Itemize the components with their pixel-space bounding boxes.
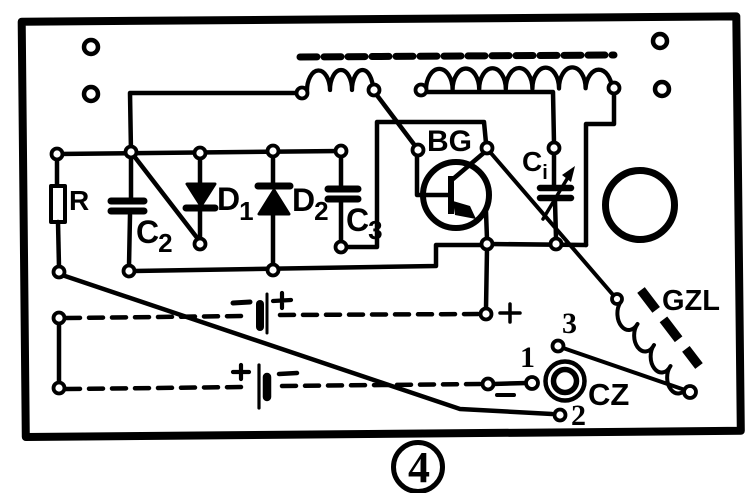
node battery B1 right (plus) — [481, 309, 492, 320]
battery B1 dashed wire left segment — [66, 316, 244, 318]
transistor BG base bar — [448, 176, 454, 214]
node BG collector — [482, 143, 493, 154]
wire left battery column — [57, 323, 62, 383]
node Ci bottom — [551, 239, 562, 250]
battery B2 long plate — [257, 365, 260, 408]
node BG base — [413, 145, 424, 156]
wire emitter rail — [490, 244, 586, 245]
ferrite core (dashed) — [300, 55, 614, 57]
node C3 bottom — [336, 242, 347, 253]
node C3 top — [336, 146, 347, 157]
node battery B2 right — [483, 379, 494, 390]
node C2 top — [126, 147, 137, 158]
svg-text:4: 4 — [408, 443, 430, 492]
minus label under terminal 1 wire — [497, 393, 514, 397]
node L1 left — [297, 88, 308, 99]
diode D1 — [186, 184, 215, 208]
wire Ci leads — [554, 154, 556, 238]
node D2 top — [268, 146, 279, 157]
node L2 right — [609, 83, 620, 94]
battery B1 minus label — [233, 302, 250, 303]
speaker mounting circle — [606, 171, 675, 240]
battery B2 dashed wire right segment — [282, 384, 482, 386]
plus label at battery node — [500, 304, 520, 322]
figure number circle — [394, 443, 443, 492]
node battery B1 left — [54, 313, 65, 324]
trimmer capacitor Ci — [540, 188, 571, 198]
wire L2 right end down-left-down to emitter rail — [586, 93, 614, 245]
transistor BG emitter stroke with arrow — [453, 201, 487, 239]
jack CZ outer ring — [546, 362, 585, 401]
battery B1 plus label — [273, 293, 291, 308]
battery B2 short plate — [263, 377, 272, 397]
svg-text:3: 3 — [562, 307, 577, 340]
wire D2 leads — [271, 157, 276, 264]
node BG emitter — [482, 239, 493, 250]
capacitor C2 — [111, 201, 144, 211]
wire R bottom lead — [58, 222, 59, 267]
svg-text:BG: BG — [427, 125, 472, 158]
node L2 left — [416, 85, 427, 96]
battery B2 dashed wire left segment — [66, 387, 244, 389]
capacitor C3 — [328, 189, 358, 199]
svg-text:D1: D1 — [217, 181, 254, 226]
wire C2-top up and across to coil L1 — [130, 93, 302, 152]
wire C3 leads — [339, 157, 344, 242]
inductor GZL coil — [617, 303, 687, 393]
node C2 bottom — [124, 266, 135, 277]
transistor BG collector stroke — [453, 151, 486, 179]
GZL ferrite rod (dashed bar) — [641, 290, 699, 366]
svg-text:2: 2 — [571, 399, 586, 432]
node R bottom — [54, 267, 65, 278]
svg-text:R: R — [69, 185, 89, 216]
node GZL top — [612, 294, 622, 304]
battery B2 plus label — [233, 365, 249, 379]
mounting hole top-left 2 — [84, 87, 98, 101]
wire C3 bottom to collector node — [346, 122, 486, 247]
battery B1 long plate — [266, 294, 269, 333]
wire top rail (R top to C3 top) — [57, 151, 341, 154]
node jack terminal 1 — [526, 377, 538, 389]
svg-text:C2: C2 — [136, 214, 173, 258]
node D1 top — [195, 148, 206, 159]
inductor L1 — [307, 70, 373, 91]
node D2 bottom — [268, 265, 279, 276]
svg-text:GZL: GZL — [662, 285, 720, 317]
wire C2 leads — [129, 157, 131, 266]
svg-text:D2: D2 — [292, 182, 329, 226]
transistor BG base lead — [417, 155, 448, 195]
node L1 right — [369, 85, 380, 96]
wire D1 leads — [198, 159, 203, 239]
mounting hole top-right 1 — [653, 34, 667, 48]
battery B2 minus label — [279, 373, 297, 374]
mounting hole top-left 1 — [84, 40, 98, 54]
wire battery B2 node to terminal 1 — [493, 383, 527, 384]
node Ci top — [549, 143, 560, 154]
node jack terminal 3 — [553, 341, 564, 352]
svg-text:CZ: CZ — [588, 377, 629, 412]
jack CZ inner ring — [554, 370, 577, 393]
transistor BG circle — [423, 162, 489, 228]
inductor L2 — [426, 67, 612, 90]
svg-text:Ci: Ci — [522, 146, 548, 184]
wire long diagonal from R bottom node to jack terminal 2 — [62, 275, 552, 414]
mounting hole top-right 2 — [655, 82, 669, 96]
diode D2 — [258, 186, 290, 214]
node D1 bottom — [195, 239, 206, 250]
wire C2 top node to D1 bottom node (diagonal) — [134, 156, 198, 239]
wire terminal 3 to GZL bottom node (diagonal) — [563, 348, 685, 390]
node R top — [52, 149, 63, 160]
battery B1 short plate — [256, 304, 264, 327]
wire R top lead — [55, 159, 60, 187]
battery B1 dashed wire right segment — [280, 314, 480, 315]
wire L1 right end to BG base node — [376, 94, 416, 147]
node battery B2 left — [54, 383, 65, 394]
node jack terminal 2 — [555, 410, 566, 421]
wire collector node to GZL top (diagonal) — [490, 152, 614, 296]
wire L2 left end to Ci top — [426, 92, 554, 143]
trimmer Ci arrow — [543, 166, 575, 219]
resistor R — [51, 186, 65, 222]
svg-text:1: 1 — [520, 341, 535, 374]
wire emitter node down to battery plus node — [486, 249, 487, 309]
node GZL bottom — [684, 386, 696, 398]
wire emitter node to bottom rail — [134, 245, 482, 271]
